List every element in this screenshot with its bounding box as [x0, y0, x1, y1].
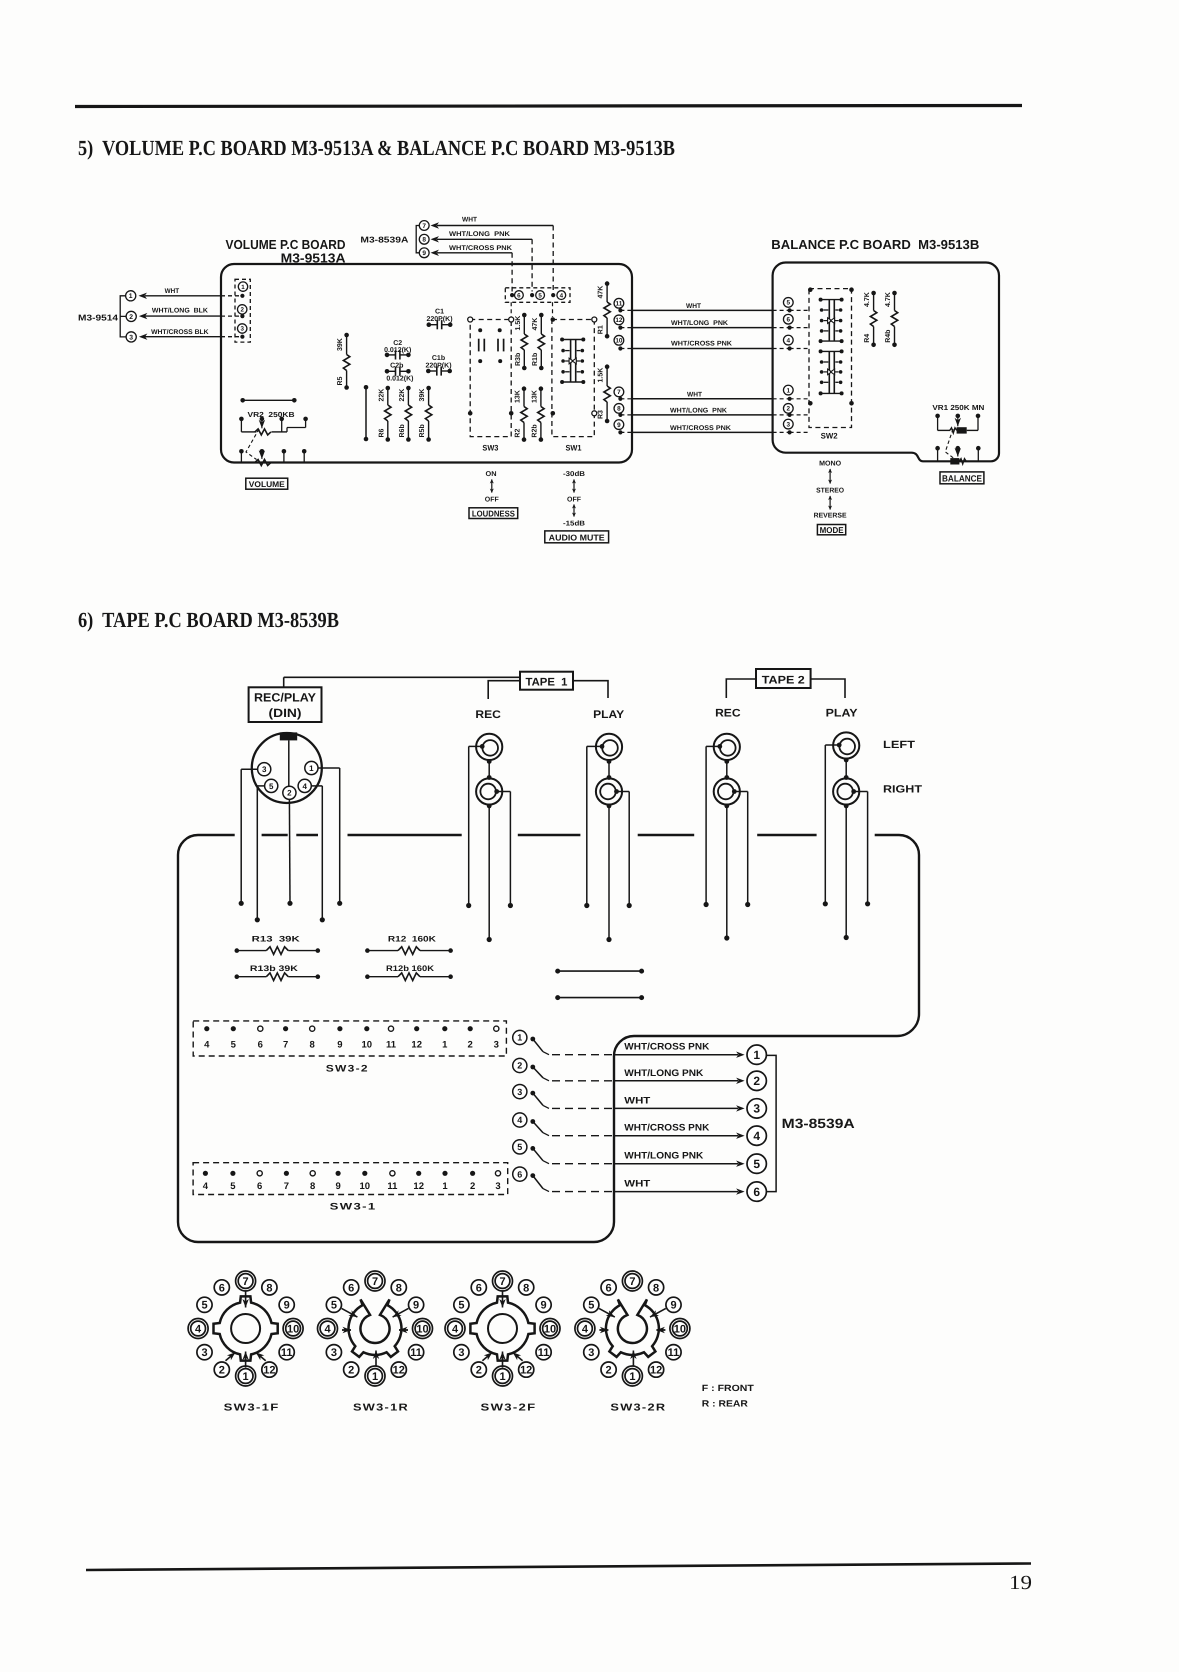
- svg-text:MONO: MONO: [819, 461, 842, 468]
- svg-text:9: 9: [541, 1300, 547, 1312]
- terminal 2 balance board: [783, 404, 793, 414]
- balance board outline M3-9513B: [773, 263, 999, 462]
- svg-text:7: 7: [243, 1276, 249, 1288]
- pad 1: [238, 282, 247, 298]
- svg-text:1: 1: [499, 1371, 505, 1383]
- svg-text:12: 12: [650, 1365, 662, 1377]
- svg-text:39K: 39K: [337, 338, 344, 351]
- svg-text:AUDIO MUTE: AUDIO MUTE: [549, 532, 605, 542]
- svg-text:11: 11: [281, 1347, 293, 1359]
- svg-text:10: 10: [544, 1324, 556, 1336]
- resistor R12b: [365, 964, 453, 981]
- svg-text:6: 6: [348, 1282, 354, 1294]
- svg-text:REVERSE: REVERSE: [814, 513, 847, 520]
- terminal 9 (M3-8539A): [419, 248, 429, 258]
- wire WHT/LONG PNK 12-6: [618, 320, 808, 330]
- svg-text:12: 12: [413, 1181, 424, 1192]
- svg-text:4.7K: 4.7K: [864, 292, 871, 307]
- terminal 1 balance board: [783, 385, 793, 395]
- svg-text:WHT/CROSS PNK: WHT/CROSS PNK: [670, 425, 731, 432]
- SW3-1F position numbers: [188, 1271, 303, 1386]
- svg-text:R12b 160K: R12b 160K: [386, 964, 434, 973]
- svg-text:6: 6: [753, 1185, 760, 1199]
- svg-text:22K: 22K: [399, 389, 406, 402]
- terminal 5 balance board: [783, 298, 793, 308]
- svg-text:13K: 13K: [515, 390, 522, 403]
- svg-text:SW3-1F: SW3-1F: [224, 1403, 280, 1414]
- svg-text:WHT: WHT: [462, 217, 478, 224]
- svg-text:WHT: WHT: [687, 392, 703, 399]
- svg-text:39K: 39K: [419, 389, 426, 402]
- svg-text:5: 5: [458, 1300, 464, 1312]
- legend F/R: [702, 1383, 755, 1409]
- svg-text:8: 8: [396, 1282, 402, 1294]
- wire WHT/CROSS PNK 1: [533, 1039, 745, 1058]
- SW3 corner pads: [468, 317, 514, 416]
- terminal 3 tape board: [513, 1085, 535, 1099]
- wire TAPE1 PLAY right lead: [617, 792, 632, 909]
- svg-text:7: 7: [284, 1181, 289, 1192]
- terminal 3 balance board: [783, 419, 793, 429]
- AUDIO MUTE switch states: [563, 470, 585, 528]
- svg-text:2: 2: [753, 1074, 760, 1088]
- terminal 3 connector M3-8539A: [747, 1099, 766, 1118]
- svg-text:-30dB: -30dB: [563, 470, 585, 478]
- SW2 upper contact stack: [819, 298, 844, 344]
- wire WHT to terminal 7: [431, 217, 554, 292]
- DIN pin 5: [265, 779, 278, 792]
- wiper dashed link VR1: [945, 429, 954, 459]
- svg-text:BALANCE P.C BOARD M3-9513B: BALANCE P.C BOARD M3-9513B: [771, 237, 979, 252]
- potentiometer VR1 upper section: [935, 414, 980, 434]
- svg-text:R12 160K: R12 160K: [388, 935, 436, 944]
- svg-text:0.012(K): 0.012(K): [386, 375, 413, 383]
- svg-text:2: 2: [468, 1040, 473, 1051]
- tape board top edge segments: [198, 834, 899, 836]
- resistor R13b: [235, 964, 321, 981]
- svg-text:R : REAR: R : REAR: [702, 1399, 749, 1409]
- svg-text:1: 1: [442, 1181, 448, 1192]
- AUDIO MUTE label box: [545, 531, 609, 543]
- wire TAPE1 REC link: [487, 759, 492, 780]
- jack TAPE2 REC lower (RCA): [714, 778, 740, 804]
- svg-text:RIGHT: RIGHT: [883, 784, 923, 796]
- svg-text:8: 8: [422, 237, 426, 244]
- svg-text:11: 11: [386, 1040, 397, 1051]
- svg-text:WHT/CROSS PNK: WHT/CROSS PNK: [624, 1042, 709, 1053]
- resistor R6 22K: [378, 386, 391, 442]
- svg-text:WHT: WHT: [624, 1095, 650, 1106]
- DIN pin 3: [258, 763, 271, 776]
- svg-text:4: 4: [787, 337, 791, 344]
- LOUDNESS label box: [469, 508, 518, 519]
- svg-text:WHT/LONG PNK: WHT/LONG PNK: [624, 1151, 703, 1162]
- svg-text:8: 8: [310, 1040, 315, 1051]
- svg-text:5: 5: [331, 1300, 337, 1312]
- pad 3: [238, 324, 247, 339]
- terminal 1 tape board: [513, 1030, 535, 1044]
- svg-text:11: 11: [387, 1181, 398, 1192]
- terminal 2 (M3-9514): [126, 311, 136, 321]
- svg-text:WHT: WHT: [165, 288, 180, 295]
- switch SW3-1 dashed box: [193, 1163, 508, 1195]
- svg-text:5) VOLUME P.C BOARD M3-9513A: 5) VOLUME P.C BOARD M3-9513A & BALANCE P…: [78, 136, 675, 160]
- svg-text:3: 3: [129, 334, 133, 341]
- svg-text:11: 11: [538, 1347, 550, 1359]
- wire TAPE2 REC left lead: [704, 746, 720, 907]
- svg-text:R5: R5: [337, 376, 344, 385]
- svg-text:13K: 13K: [532, 390, 539, 403]
- capacitor C2b: [385, 361, 411, 376]
- SW3-2F pointer arrows: [482, 1290, 522, 1367]
- resistor R1 47K: [598, 281, 611, 338]
- svg-text:4: 4: [452, 1324, 459, 1336]
- svg-text:1: 1: [442, 1040, 448, 1051]
- svg-text:1: 1: [629, 1371, 635, 1383]
- jack TAPE1 REC upper (RCA): [476, 734, 502, 760]
- svg-text:-15dB: -15dB: [563, 520, 585, 528]
- resistor R13: [235, 935, 321, 955]
- svg-text:2: 2: [129, 314, 133, 321]
- terminal 9 volume board: [614, 420, 624, 430]
- wire drop to SW3: [510, 302, 512, 317]
- capacitor C2: [384, 340, 411, 360]
- wire WHT 11-5: [618, 303, 808, 313]
- svg-text:1: 1: [372, 1371, 378, 1383]
- SW3-2 contact row: [204, 1026, 499, 1050]
- svg-text:SW3-2: SW3-2: [326, 1064, 369, 1075]
- terminal 3 (M3-9514): [126, 332, 136, 342]
- wire WHT 3: [533, 1093, 745, 1112]
- svg-text:M3-9513A: M3-9513A: [281, 250, 347, 265]
- svg-text:1: 1: [753, 1048, 760, 1062]
- terminal 11 volume board: [614, 298, 624, 308]
- svg-text:R2b: R2b: [531, 424, 539, 437]
- terminal 4 tape board: [513, 1113, 535, 1127]
- svg-text:C2b: C2b: [390, 361, 403, 369]
- svg-text:R2: R2: [515, 429, 522, 438]
- wire WHT 6: [533, 1176, 745, 1195]
- svg-text:9: 9: [617, 422, 621, 429]
- terminal 1 connector M3-8539A: [747, 1045, 766, 1064]
- svg-text:R3: R3: [598, 410, 605, 419]
- svg-text:9: 9: [335, 1181, 340, 1192]
- resistor R5 39K: [337, 333, 350, 390]
- wire TAPE2 PLAY link: [844, 758, 849, 780]
- svg-text:5: 5: [231, 1040, 237, 1051]
- resistor R2 13K: [515, 386, 528, 442]
- svg-text:REC: REC: [715, 708, 741, 720]
- svg-text:MODE: MODE: [820, 525, 844, 535]
- svg-text:19: 19: [1009, 1572, 1032, 1594]
- jack TAPE1 PLAY upper (RCA): [596, 734, 622, 760]
- svg-text:47K: 47K: [532, 318, 539, 331]
- DIN connector body: [252, 732, 322, 803]
- SW3-1R position numbers: [318, 1271, 433, 1386]
- svg-text:SW3-1: SW3-1: [330, 1202, 377, 1213]
- terminal 7 volume board: [614, 387, 624, 397]
- svg-text:6: 6: [606, 1282, 612, 1294]
- wire drop to SW1: [552, 302, 554, 317]
- svg-text:7: 7: [283, 1040, 288, 1051]
- DIN pin 1: [305, 761, 318, 774]
- svg-text:5: 5: [753, 1157, 760, 1171]
- svg-text:WHT/CROSS BLK: WHT/CROSS BLK: [151, 329, 209, 336]
- svg-text:7: 7: [372, 1276, 378, 1288]
- svg-text:7: 7: [499, 1276, 505, 1288]
- svg-text:2: 2: [476, 1365, 482, 1377]
- svg-text:R13 39K: R13 39K: [252, 935, 300, 944]
- svg-text:PLAY: PLAY: [593, 709, 625, 721]
- svg-text:OFF: OFF: [485, 497, 500, 504]
- svg-text:0.012(K): 0.012(K): [384, 346, 411, 354]
- svg-text:5: 5: [517, 1142, 522, 1152]
- svg-text:2: 2: [287, 789, 292, 798]
- svg-text:2: 2: [240, 307, 244, 314]
- svg-text:12: 12: [411, 1040, 422, 1051]
- svg-text:11: 11: [668, 1347, 680, 1359]
- terminal 6 tape board: [513, 1167, 535, 1181]
- wire WHT/CROSS BLK input 3: [139, 329, 243, 340]
- svg-text:12: 12: [520, 1365, 532, 1377]
- switch SW3-2 dashed box: [193, 1021, 506, 1056]
- svg-text:3: 3: [753, 1102, 760, 1116]
- svg-text:4: 4: [753, 1129, 760, 1143]
- svg-text:1: 1: [129, 293, 133, 300]
- svg-text:3: 3: [588, 1347, 594, 1359]
- svg-text:9: 9: [284, 1300, 290, 1312]
- svg-text:LEFT: LEFT: [883, 739, 916, 751]
- terminal 10 volume board: [614, 335, 624, 345]
- wire VR2 top link: [240, 398, 296, 403]
- terminal 6 connector M3-8539A: [747, 1182, 766, 1201]
- rotary switch SW3-2R body: [606, 1299, 659, 1357]
- svg-text:WHT/CROSS PNK: WHT/CROSS PNK: [671, 341, 732, 348]
- wire WHT/CROSS PNK 10-4: [618, 341, 808, 351]
- svg-text:7: 7: [629, 1276, 635, 1288]
- switch SW1 dashed box: [552, 320, 594, 453]
- SW1 corner pads: [551, 317, 597, 416]
- svg-text:6: 6: [257, 1181, 262, 1192]
- svg-text:8: 8: [310, 1181, 315, 1192]
- terminal 7 (M3-8539A): [419, 221, 429, 231]
- svg-text:STEREO: STEREO: [816, 488, 845, 495]
- svg-text:WHT/CROSS PNK: WHT/CROSS PNK: [449, 245, 512, 252]
- svg-text:R1: R1: [598, 325, 605, 334]
- svg-text:8: 8: [617, 406, 621, 413]
- wire TAPE2 REC right lead: [734, 792, 750, 908]
- svg-text:10: 10: [674, 1324, 686, 1336]
- svg-text:M3-9514: M3-9514: [78, 313, 118, 323]
- wire TAPE1 REC left lead: [466, 746, 482, 908]
- wire DIN pin 2: [287, 799, 292, 906]
- pin 6: [510, 291, 523, 300]
- connector M3-8539A label (top): [360, 226, 421, 253]
- pad 2: [238, 305, 247, 319]
- potentiometer VR2 lower section: [239, 449, 306, 466]
- terminal 5 connector M3-8539A: [747, 1154, 766, 1173]
- svg-text:1: 1: [243, 1371, 249, 1383]
- svg-text:6: 6: [517, 1169, 522, 1179]
- SW3-1 contact row: [203, 1171, 501, 1192]
- connector 6-5-4 dashed box: [505, 288, 570, 303]
- wire TAPE2 REC link: [724, 759, 729, 780]
- rotary switch SW3-1F body: [214, 1296, 278, 1360]
- svg-text:4: 4: [324, 1324, 331, 1336]
- potentiometer VR2 upper section: [239, 417, 308, 435]
- svg-text:F : FRONT: F : FRONT: [702, 1383, 755, 1393]
- svg-text:OFF: OFF: [567, 497, 582, 504]
- svg-text:3: 3: [495, 1181, 500, 1192]
- wire TAPE2 REC center lead: [724, 804, 729, 941]
- svg-text:R3b: R3b: [514, 353, 522, 366]
- svg-text:5: 5: [269, 782, 274, 791]
- svg-text:3: 3: [787, 421, 791, 428]
- svg-text:2: 2: [470, 1181, 475, 1192]
- svg-text:3: 3: [494, 1040, 499, 1051]
- wire TAPE1 PLAY left lead: [584, 746, 602, 908]
- rotary switch SW3-2F body: [470, 1296, 534, 1360]
- volume board label: [226, 237, 347, 265]
- svg-text:R6b: R6b: [398, 424, 406, 437]
- resistor R5b 39K: [418, 386, 432, 442]
- svg-text:8: 8: [653, 1282, 659, 1294]
- svg-text:5: 5: [201, 1300, 207, 1312]
- DIN pin 4: [298, 779, 311, 792]
- svg-text:10: 10: [362, 1040, 373, 1051]
- svg-text:4: 4: [302, 782, 307, 791]
- wire TAPE1 REC right lead: [497, 792, 513, 909]
- SW3 contacts: [478, 328, 503, 363]
- wire WHT/LONG PNK to terminal 8: [431, 231, 533, 292]
- page bottom rule: [86, 1564, 1031, 1571]
- resistor R3 1.5K: [598, 364, 611, 423]
- svg-text:4: 4: [582, 1324, 589, 1336]
- wire vertical mid: [364, 385, 369, 441]
- svg-text:PLAY: PLAY: [826, 708, 859, 720]
- terminal 5 tape board: [513, 1140, 535, 1154]
- wire WHT/LONG PNK 5: [533, 1148, 745, 1167]
- wire DIN pin 1: [318, 768, 342, 906]
- wire DIN to TAPE 1: [284, 677, 520, 687]
- svg-text:SW3-2R: SW3-2R: [610, 1403, 666, 1414]
- terminal 2 connector M3-8539A: [747, 1071, 766, 1090]
- svg-text:6: 6: [258, 1040, 263, 1051]
- svg-text:WHT/CROSS PNK: WHT/CROSS PNK: [624, 1123, 709, 1134]
- connector M3-9514 terminals: [78, 296, 126, 337]
- jack TAPE2 PLAY upper (RCA): [833, 732, 859, 758]
- volume board input dashed box: [235, 279, 250, 342]
- svg-text:VR2 250KB: VR2 250KB: [248, 410, 295, 419]
- svg-text:R4b: R4b: [884, 330, 892, 343]
- svg-text:9: 9: [422, 250, 426, 257]
- switch SW2 dashed box: [809, 289, 852, 441]
- wiper dashed link VR2: [246, 429, 259, 460]
- svg-text:LOUDNESS: LOUDNESS: [472, 508, 515, 518]
- svg-text:6: 6: [219, 1282, 225, 1294]
- svg-text:1: 1: [517, 1033, 522, 1043]
- svg-text:TAPE 1: TAPE 1: [526, 676, 568, 688]
- svg-text:SW2: SW2: [821, 432, 839, 441]
- svg-text:9: 9: [413, 1300, 419, 1312]
- SW3-2R pointer arrows: [599, 1308, 666, 1366]
- SW2 corner pads: [808, 287, 854, 405]
- svg-text:REC/PLAY: REC/PLAY: [254, 691, 316, 705]
- wire WHT 7-1: [618, 392, 808, 401]
- svg-text:WHT/LONG PNK: WHT/LONG PNK: [449, 231, 510, 238]
- connector bracket M3-8539A: [767, 1055, 776, 1191]
- svg-text:WHT/LONG PNK: WHT/LONG PNK: [671, 320, 728, 327]
- resistor R1b 47K: [531, 313, 545, 371]
- rotary switch SW3-1R body: [349, 1299, 402, 1357]
- svg-text:2: 2: [219, 1365, 225, 1377]
- SW3-1R pointer arrows: [342, 1308, 409, 1366]
- terminal 1 (M3-9514): [126, 291, 136, 301]
- resistor R4 4.7K: [864, 291, 877, 347]
- svg-text:VR1 250K MN: VR1 250K MN: [932, 403, 984, 412]
- terminal 12 volume board: [614, 315, 624, 325]
- wire TAPE2 PLAY left lead: [823, 745, 840, 906]
- svg-text:6: 6: [787, 317, 791, 324]
- svg-text:WHT: WHT: [686, 303, 702, 310]
- svg-text:C2: C2: [393, 340, 402, 347]
- svg-text:(DIN): (DIN): [269, 706, 302, 720]
- wire TAPE1 REC center lead: [487, 804, 492, 943]
- resistor R4b 4.7K: [884, 291, 898, 347]
- jack TAPE1 PLAY lower (RCA): [596, 778, 622, 804]
- tape board outline M3-8539B: [178, 835, 919, 1242]
- wire WHT/LONG PNK 2: [533, 1067, 745, 1084]
- svg-text:7: 7: [422, 223, 426, 230]
- resistor R2b 13K: [531, 386, 545, 442]
- terminal 4 balance board: [783, 335, 793, 345]
- wire WHT input 1: [139, 288, 243, 299]
- svg-text:4: 4: [195, 1324, 202, 1336]
- terminal 8 volume board: [614, 404, 624, 414]
- pin 5: [530, 291, 544, 300]
- svg-text:C1b: C1b: [432, 354, 445, 362]
- svg-text:2: 2: [348, 1365, 354, 1377]
- svg-text:R4: R4: [864, 334, 871, 343]
- svg-text:11: 11: [616, 301, 623, 308]
- DIN pin 2: [283, 786, 296, 799]
- pin 4: [551, 291, 566, 300]
- svg-text:8: 8: [523, 1282, 529, 1294]
- capacitor C1: [426, 309, 452, 330]
- switch SW3 dashed box: [470, 320, 511, 453]
- svg-text:3: 3: [458, 1347, 464, 1359]
- resistor R3b 1.5K: [514, 313, 528, 371]
- svg-text:WHT: WHT: [624, 1179, 650, 1190]
- svg-text:WHT/LONG BLK: WHT/LONG BLK: [152, 308, 208, 315]
- svg-text:47K: 47K: [598, 286, 605, 299]
- svg-text:9: 9: [337, 1040, 342, 1051]
- svg-text:TAPE 2: TAPE 2: [762, 674, 805, 686]
- svg-text:10: 10: [287, 1324, 299, 1336]
- svg-text:1: 1: [241, 284, 245, 291]
- MODE switch states: [814, 461, 847, 520]
- svg-text:WHT/LONG PNK: WHT/LONG PNK: [624, 1068, 703, 1079]
- jack TAPE2 REC upper (RCA): [714, 734, 740, 760]
- wire WHT/CROSS PNK 9-3: [618, 425, 808, 435]
- svg-text:VOLUME: VOLUME: [249, 480, 286, 489]
- wire TAPE1 PLAY center lead: [606, 804, 611, 943]
- TAPE 2 label box: [726, 669, 845, 698]
- wire TAPE2 PLAY center lead: [844, 804, 849, 941]
- volume board outline M3-9513A: [221, 264, 632, 463]
- svg-text:WHT/LONG PNK: WHT/LONG PNK: [670, 408, 727, 415]
- svg-text:10: 10: [360, 1181, 371, 1192]
